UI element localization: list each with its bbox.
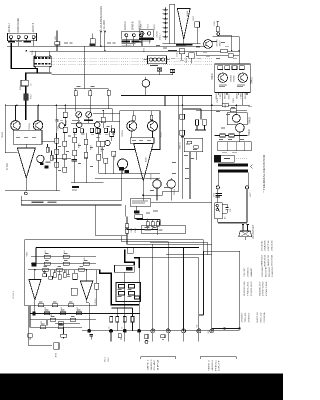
svg-text:B407-M: B407-M xyxy=(257,312,259,322)
svg-text:TR303: TR303 xyxy=(2,131,4,138)
transistor TR407 xyxy=(204,40,213,49)
resistor r4 xyxy=(239,66,244,70)
svg-text:2N3055-RB: 2N3055-RB xyxy=(244,281,246,296)
wire row right xyxy=(140,258,199,331)
op-amp IC302 triangle xyxy=(134,144,153,181)
resistor R322 xyxy=(107,90,110,95)
misc mid components xyxy=(157,68,161,71)
trimmer VR303 xyxy=(76,112,82,118)
wire mains xyxy=(217,219,219,223)
transistor TR302 xyxy=(142,80,150,88)
svg-text:TAPE 1: TAPE 1 xyxy=(146,358,149,370)
svg-text:TR407: TR407 xyxy=(220,40,222,47)
resistor R332 xyxy=(196,120,199,125)
resistor R331 xyxy=(180,130,185,135)
svg-text:TR309: TR309 xyxy=(151,173,153,180)
svg-text:2SD18: 2SD18 xyxy=(224,92,226,99)
resistor R410 xyxy=(222,103,228,106)
staircase wires xyxy=(74,89,109,91)
thick feedback wire xyxy=(36,246,199,248)
marks in terminal strip box xyxy=(145,227,150,228)
svg-text:TR305: TR305 xyxy=(161,131,163,138)
column x54-70 xyxy=(55,138,59,143)
svg-text:C26: C26 xyxy=(77,307,79,310)
terminal rings xyxy=(151,329,155,333)
svg-text:C01: C01 xyxy=(230,209,232,212)
transistor TR304L xyxy=(33,121,43,131)
arrow mark xyxy=(251,165,253,169)
resistor R311 xyxy=(50,155,53,160)
svg-text:8-B01: 8-B01 xyxy=(229,93,231,99)
terminal xyxy=(217,33,220,36)
thermal breaker box xyxy=(214,155,234,162)
capacitor C310 xyxy=(179,49,184,54)
svg-text:VR01: VR01 xyxy=(26,251,28,257)
terminal HO-1 xyxy=(216,186,219,189)
diode ticks xyxy=(163,9,169,36)
pin 2 xyxy=(132,34,135,37)
svg-text:2SD380: 2SD380 xyxy=(262,266,264,277)
svg-text:2SB40: 2SB40 xyxy=(236,92,238,99)
coil L301 xyxy=(148,56,167,64)
svg-text:C405: C405 xyxy=(131,228,133,233)
svg-text:C309: C309 xyxy=(101,147,103,152)
pin drops B xyxy=(126,37,141,47)
svg-text:2SC945: 2SC945 xyxy=(217,38,219,46)
svg-text:2SC458L: 2SC458L xyxy=(261,240,263,251)
svg-text:JA300TR: JA300TR xyxy=(267,254,270,266)
svg-text:IC-01-1: IC-01-1 xyxy=(13,290,15,298)
wire to OTL xyxy=(212,36,239,38)
node dots xyxy=(100,45,102,47)
svg-text:LINE: LINE xyxy=(60,40,62,45)
transistor q2 xyxy=(76,122,82,128)
resistor R330 xyxy=(180,114,185,119)
wire under amp xyxy=(163,43,201,45)
resistor columns under loop xyxy=(110,317,113,323)
transistor q4 xyxy=(105,140,110,145)
dashed link xyxy=(236,158,247,160)
resistor R302 (line) xyxy=(55,42,60,45)
wire row xyxy=(196,54,239,56)
bold label speaker B1 xyxy=(121,40,130,42)
terminal HO-7 xyxy=(245,186,248,189)
transistor TR406 xyxy=(236,124,245,133)
svg-text:TR401: TR401 xyxy=(251,76,253,84)
svg-text:R410: R410 xyxy=(217,98,219,103)
wire left edge bus xyxy=(4,104,6,153)
resistor R402 xyxy=(221,49,228,53)
dark blob TR307 xyxy=(40,163,44,166)
diode string D301-D307 rail xyxy=(164,7,166,40)
wire bus y95 xyxy=(121,95,212,97)
svg-text:JA300T-4: JA300T-4 xyxy=(32,22,35,33)
svg-text:AMP2034: AMP2034 xyxy=(264,254,267,266)
text smudge rows central band xyxy=(74,133,77,136)
svg-text:HO1: HO1 xyxy=(214,193,216,197)
svg-text:R16: R16 xyxy=(84,258,86,261)
svg-text:2SC734: 2SC734 xyxy=(268,239,270,251)
terminal bus xyxy=(82,330,240,332)
stacked resistors xyxy=(125,224,128,228)
wires xyxy=(236,105,240,142)
svg-text:FUSE3A: FUSE3A xyxy=(263,312,266,323)
left col boxes xyxy=(71,288,77,295)
capacitor C01 xyxy=(226,208,229,210)
driver box TR405 xyxy=(227,113,247,125)
svg-text:D301-7: D301-7 xyxy=(160,33,162,40)
thick path 2 xyxy=(134,258,139,268)
fuse F301 hatch xyxy=(24,94,29,100)
cap below xyxy=(90,334,94,336)
driver block right xyxy=(184,138,203,151)
resistor row above transformer xyxy=(215,135,248,137)
svg-text:7-TRB: 7-TRB xyxy=(241,93,243,99)
svg-text:JA300-5: JA300-5 xyxy=(150,358,153,370)
transistor TR310 xyxy=(167,180,175,188)
svg-text:GND: GND xyxy=(141,24,143,29)
svg-text:R3021: R3021 xyxy=(154,23,156,30)
input wire xyxy=(5,152,17,154)
transistor TR400 xyxy=(218,73,227,82)
svg-text:R405: R405 xyxy=(135,228,137,233)
bottom rows xyxy=(24,305,96,307)
wire line bus upper xyxy=(7,45,213,47)
IC bar xyxy=(170,4,175,44)
resistor R321 xyxy=(89,91,92,96)
transistor TR304 xyxy=(127,121,137,131)
svg-text:IC 301: IC 301 xyxy=(6,162,9,170)
channel frame xyxy=(58,109,113,121)
capacitor C300 box xyxy=(90,39,95,44)
outer box bottom-left section xyxy=(24,240,239,329)
svg-text:R24: R24 xyxy=(61,307,63,310)
thick path 1 xyxy=(125,250,134,266)
wire rows mid-bottom xyxy=(96,205,212,331)
input network between xyxy=(43,274,47,277)
svg-text:2SB54: 2SB54 xyxy=(247,266,249,277)
dark in junction box xyxy=(126,267,133,270)
resistor col rx1 xyxy=(63,112,67,117)
svg-text:REC: REC xyxy=(215,359,217,371)
wires into pair xyxy=(16,105,39,120)
pin 3 xyxy=(140,34,143,37)
pin 4 xyxy=(32,36,35,39)
svg-text:25V470M: 25V470M xyxy=(272,255,274,267)
transformer frame verticals xyxy=(218,173,248,186)
svg-text:B507B: B507B xyxy=(265,266,267,277)
svg-text:2SD407: 2SD407 xyxy=(242,312,244,323)
wire stub xyxy=(165,92,243,105)
wire bus feeder xyxy=(83,46,85,89)
resistor R318 xyxy=(189,53,195,59)
svg-text:R326: R326 xyxy=(79,143,81,148)
svg-text:2SB507: 2SB507 xyxy=(249,312,251,323)
svg-text:2SB434: 2SB434 xyxy=(231,75,233,82)
svg-text:JA-300: JA-300 xyxy=(102,20,106,30)
dark blob TR306 xyxy=(119,167,124,170)
svg-text:TR405: TR405 xyxy=(250,116,252,124)
op-amp U301 power triangle xyxy=(177,9,190,39)
thick mains wire from jacks xyxy=(11,43,51,120)
transistor q1 xyxy=(59,123,65,129)
svg-text:R12: R12 xyxy=(45,251,47,254)
transformer bar 1 xyxy=(218,163,248,166)
middle channel box xyxy=(120,111,160,150)
trimmer VR304 xyxy=(86,112,92,118)
dashed bus lines xyxy=(52,57,213,59)
pin 1 xyxy=(125,34,128,37)
connector JA301 (speaker jacks A) xyxy=(8,33,37,41)
bold label speaker A1 xyxy=(8,41,15,43)
node out xyxy=(24,192,27,195)
wires xyxy=(95,169,160,201)
bold label VR xyxy=(84,120,93,122)
terminal strip label box xyxy=(142,225,186,233)
resistor above TR305 xyxy=(150,115,153,120)
svg-text:TR304: TR304 xyxy=(122,130,124,137)
svg-text:C305: C305 xyxy=(57,126,59,131)
resistor R309 xyxy=(46,147,49,152)
svg-text:MAIN-B2: MAIN-B2 xyxy=(260,254,263,267)
svg-text:AC OUTLET: AC OUTLET xyxy=(252,224,255,239)
svg-text:CD1-2: CD1-2 xyxy=(95,298,97,305)
relay box mid xyxy=(130,199,150,207)
svg-text:R412: R412 xyxy=(233,98,235,103)
resistor R315 xyxy=(195,22,200,28)
svg-text:UNPLUGGED: UNPLUGGED xyxy=(18,18,20,33)
svg-text:TR400: TR400 xyxy=(212,72,214,80)
svg-text:JA300-6: JA300-6 xyxy=(211,359,214,371)
svg-text:JA300-2: JA300-2 xyxy=(124,21,127,30)
svg-text:4AMP: 4AMP xyxy=(250,267,253,277)
OTL output block box xyxy=(215,64,251,93)
svg-text:REC-02: REC-02 xyxy=(260,311,262,322)
wire connC drops xyxy=(142,40,149,46)
wire branch xyxy=(199,251,204,315)
transformer bar 2 xyxy=(218,169,248,172)
wire pin drops xyxy=(11,39,34,47)
transistor q3 xyxy=(94,122,100,128)
pin 2 xyxy=(17,36,20,39)
connector JA300-2 (speaker jacks B) xyxy=(122,31,143,39)
svg-text:R14: R14 xyxy=(64,251,66,254)
misc upper marks xyxy=(64,42,68,45)
svg-text:TO-3P: TO-3P xyxy=(244,267,246,277)
resistor trio xyxy=(146,222,149,227)
faint text rows xyxy=(16,41,22,42)
cap C305 xyxy=(55,120,58,122)
connector JA302 xyxy=(139,30,153,38)
mid-bottom cluster xyxy=(125,205,136,217)
resistor r2 xyxy=(225,66,230,70)
diode dots xyxy=(165,9,166,10)
left lower column components xyxy=(73,137,77,142)
svg-text:R324: R324 xyxy=(91,145,93,150)
nested wire loops xyxy=(150,243,212,255)
bold label connector C xyxy=(139,38,154,40)
input network marks xyxy=(43,271,46,274)
resistor r3 xyxy=(232,66,237,70)
bold label speaker B2 xyxy=(132,40,142,42)
svg-text:C30: C30 xyxy=(41,321,43,324)
thermal black block xyxy=(214,155,221,162)
svg-text:SPKR-B: SPKR-B xyxy=(132,21,134,30)
svg-text:JA300: JA300 xyxy=(186,10,189,17)
op-amp IC301 xyxy=(17,148,35,178)
svg-text:R28: R28 xyxy=(51,314,53,317)
pin 3 xyxy=(25,36,28,39)
resistor bank box xyxy=(116,283,141,302)
dark junction xyxy=(32,263,37,267)
bracket B xyxy=(141,357,176,360)
transformer hatch bands xyxy=(35,57,51,59)
svg-text:RES50: RES50 xyxy=(269,266,271,277)
svg-text:470MF50WV: 470MF50WV xyxy=(263,281,265,296)
resistor above TR304 xyxy=(133,116,136,121)
transistor TR306 xyxy=(118,159,128,169)
resistor box xyxy=(135,215,143,219)
AC plug xyxy=(242,225,249,232)
bias network box xyxy=(130,138,154,144)
transistor TR401 xyxy=(238,73,247,82)
small parts bottom xyxy=(118,334,121,338)
wire stub mid xyxy=(92,34,94,39)
svg-text:B+: B+ xyxy=(109,326,111,328)
resistor R411 xyxy=(230,109,236,112)
wire bus y110 xyxy=(196,109,247,111)
svg-text:2SB435: 2SB435 xyxy=(234,75,236,82)
wires to switch xyxy=(218,189,247,223)
svg-text:2SA49B: 2SA49B xyxy=(264,240,267,251)
terminal dots filled xyxy=(87,329,91,333)
bold mid-bottom xyxy=(134,211,140,214)
junction box bottom xyxy=(115,265,135,272)
transistor TR307 xyxy=(37,155,44,162)
bracket C xyxy=(200,357,236,360)
legs xyxy=(219,92,247,95)
svg-text:C411: C411 xyxy=(225,104,227,108)
bracket A xyxy=(29,306,52,346)
svg-text:ELNA-CE04: ELNA-CE04 xyxy=(265,281,268,296)
svg-text:TAPE 2: TAPE 2 xyxy=(208,359,211,371)
wire vertical right long xyxy=(211,96,213,331)
svg-text:* THERMAL RESISTOR: * THERMAL RESISTOR xyxy=(262,154,266,192)
tiny text block bold xyxy=(216,193,222,194)
svg-text:2SD1B: 2SD1B xyxy=(245,92,247,99)
svg-text:TR306: TR306 xyxy=(114,154,116,161)
left column small components xyxy=(101,117,105,122)
black footer bar xyxy=(0,374,283,400)
svg-text:1N4002: 1N4002 xyxy=(272,266,274,277)
svg-text:2SA733: 2SA733 xyxy=(178,141,181,149)
dark bit row xyxy=(33,311,36,315)
transformer T301 hatched box xyxy=(34,56,51,67)
svg-text:C302-B: C302-B xyxy=(157,31,159,38)
pin 1 xyxy=(10,36,13,39)
resistor R301 xyxy=(21,80,28,86)
transistor TR405 xyxy=(233,114,241,122)
svg-text:PLAY: PLAY xyxy=(153,358,156,370)
wire apex drop xyxy=(183,39,185,44)
long verticals xyxy=(142,96,196,200)
label marks bottom-left rows xyxy=(45,252,49,255)
svg-text:TR406: TR406 xyxy=(249,128,251,136)
svg-text:JACKS-1: JACKS-1 xyxy=(8,22,11,32)
component row texture y128 xyxy=(73,128,76,132)
transistor TR309 xyxy=(153,180,161,188)
rows of resistors bottom-left xyxy=(31,256,96,258)
arrow marks xyxy=(100,31,106,33)
resistor R403 xyxy=(228,54,233,58)
small box xyxy=(127,248,133,254)
op-amp CD-2 xyxy=(80,281,93,300)
bold label under amp xyxy=(176,43,192,45)
resistor col rx2 xyxy=(63,127,67,132)
svg-text:TR304: TR304 xyxy=(29,123,31,130)
resistor R333 xyxy=(203,119,206,125)
bold label speaker A2 xyxy=(24,41,31,43)
svg-text:TR310: TR310 xyxy=(174,188,176,195)
bold label pb amp xyxy=(72,186,79,188)
resistor r1 xyxy=(218,66,223,70)
svg-text:HO7: HO7 xyxy=(250,193,252,197)
wire line bus lower xyxy=(30,50,240,52)
svg-text:TR5-B1: TR5-B1 xyxy=(245,311,247,322)
svg-text:R22: R22 xyxy=(45,307,47,310)
svg-text:RADIAL25V: RADIAL25V xyxy=(258,281,261,296)
thick loop CD2 xyxy=(100,270,139,305)
svg-text:2SD234: 2SD234 xyxy=(272,239,274,251)
svg-text:TR405-X01: TR405-X01 xyxy=(247,280,249,296)
power switch box xyxy=(215,203,222,219)
output wire xyxy=(5,178,60,191)
wire x-feed xyxy=(52,74,173,76)
relay/choke long box xyxy=(218,142,251,151)
op-amp CD-1 xyxy=(29,280,41,300)
node drops loudspeaker xyxy=(101,33,105,51)
step wire xyxy=(182,109,201,119)
transistor TR303 xyxy=(11,121,21,131)
svg-text:C3281-B22: C3281-B22 xyxy=(251,280,253,296)
resistor R320 xyxy=(74,91,77,96)
main box bottom edge xyxy=(21,200,121,202)
terminal drops below xyxy=(111,333,199,342)
wire bus y105 xyxy=(5,104,250,106)
transistor TR305 xyxy=(148,121,158,131)
svg-text:R307: R307 xyxy=(66,120,68,125)
bias box left xyxy=(13,130,42,144)
fuse F401 xyxy=(216,27,219,32)
wires lower left xyxy=(71,182,104,184)
svg-text:7-TRQ: 7-TRQ xyxy=(220,93,222,99)
